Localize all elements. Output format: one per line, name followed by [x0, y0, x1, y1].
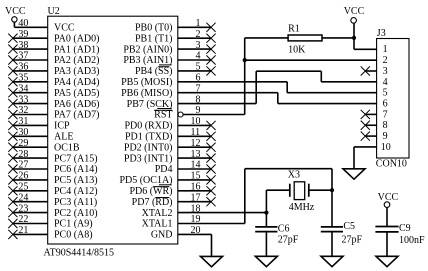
no-connect X at U2 pin 13 — [206, 154, 215, 163]
svg-text:27pF: 27pF — [342, 235, 363, 246]
svg-text:4: 4 — [383, 77, 388, 88]
wire stub J3 pin 7 — [365, 113, 376, 115]
svg-text:4MHz: 4MHz — [289, 202, 315, 213]
wire XTAL1 top horizontal to node D — [245, 168, 332, 170]
svg-text:6: 6 — [383, 98, 388, 109]
inversion bubble at U2 pin 9 (RST) — [178, 112, 183, 117]
wire stub U2 pin 11 — [178, 135, 211, 137]
svg-text:PA3 (AD3): PA3 (AD3) — [54, 66, 99, 77]
no-connect X at U2 pin 38 — [8, 45, 17, 54]
svg-text:XTAL1: XTAL1 — [142, 219, 173, 230]
wire U2 pin 18 (XTAL2) to node C — [178, 212, 267, 214]
svg-text:VCC: VCC — [5, 6, 26, 17]
wire stub U2 pin 12 — [178, 146, 211, 148]
no-connect X at U2 pin 10 — [206, 121, 215, 130]
svg-text:C5: C5 — [343, 221, 355, 232]
svg-text:9: 9 — [383, 131, 388, 142]
no-connect X at U2 pin 28 — [8, 154, 17, 163]
resistor R1 body — [288, 35, 322, 41]
svg-text:29: 29 — [18, 138, 28, 149]
svg-text:5: 5 — [383, 88, 388, 99]
no-connect X at U2 pin 33 — [8, 99, 17, 108]
wire stub J3 pin 3 — [365, 70, 376, 72]
svg-text:40: 40 — [18, 18, 28, 29]
wire stub U2 pin 38 — [13, 48, 48, 50]
wire XTAL1 riser vertical — [244, 169, 246, 224]
ground symbol below C6 — [255, 256, 277, 266]
svg-text:PC4 (A12): PC4 (A12) — [54, 186, 98, 197]
no-connect X at U2 pin 21 — [8, 230, 17, 239]
svg-text:PA2 (AD2): PA2 (AD2) — [54, 55, 99, 66]
svg-text:23: 23 — [18, 203, 28, 214]
svg-text:PD2 (INT0): PD2 (INT0) — [124, 142, 173, 153]
no-connect X at U2 pin 27 — [8, 164, 17, 173]
wire stub U2 pin 33 — [13, 103, 48, 105]
svg-text:U2: U2 — [48, 6, 60, 17]
svg-text:38: 38 — [18, 40, 28, 51]
svg-text:PD4: PD4 — [155, 164, 173, 175]
wire C5 to ground — [331, 232, 333, 257]
svg-text:VCC: VCC — [54, 23, 75, 34]
svg-text:32: 32 — [18, 105, 28, 116]
wire C9 to ground — [386, 232, 388, 256]
svg-text:PD7 (RD): PD7 (RD) — [132, 197, 173, 208]
svg-text:C6: C6 — [278, 224, 290, 235]
ground symbol below C5 — [321, 256, 343, 266]
svg-text:C9: C9 — [399, 223, 411, 234]
svg-text:33: 33 — [18, 94, 28, 105]
wire U2 pin 9 (RST) to node A riser — [183, 114, 245, 116]
svg-text:PC0 (A8): PC0 (A8) — [54, 230, 93, 241]
svg-text:31: 31 — [18, 116, 28, 127]
svg-text:XTAL2: XTAL2 — [142, 208, 173, 219]
svg-text:26: 26 — [18, 171, 28, 182]
wire stub U2 pin 17 — [178, 201, 211, 203]
svg-text:8: 8 — [383, 120, 388, 131]
wire stub U2 pin 4 — [178, 59, 211, 61]
svg-text:28: 28 — [18, 149, 28, 160]
no-connect X at U2 pin 30 — [8, 132, 17, 141]
wire stub U2 pin 15 — [178, 179, 211, 181]
junction dot node D at crystal right/C5 — [330, 188, 334, 192]
ground symbol below U2 GND — [201, 256, 223, 266]
no-connect X at J3 pin 9 — [361, 132, 370, 141]
no-connect X at U2 pin 29 — [8, 143, 17, 152]
no-connect X at U2 pin 24 — [8, 197, 17, 206]
svg-text:PD1 (TXD): PD1 (TXD) — [125, 132, 173, 143]
wire stub U2 pin 30 — [13, 135, 48, 137]
no-connect X at U2 pin 12 — [206, 143, 215, 152]
wire stub U2 pin 22 — [13, 223, 48, 225]
wire stub U2 pin 32 — [13, 114, 48, 116]
no-connect X at U2 pin 11 — [206, 132, 215, 141]
IC U2 body (AT90S4414/8515) — [48, 16, 178, 244]
wire VCC symbol to C9 — [386, 207, 388, 226]
svg-text:21: 21 — [18, 225, 28, 236]
svg-text:7: 7 — [383, 109, 388, 120]
wire stub U2 pin 26 — [13, 179, 48, 181]
capacitor C5 top plate — [321, 226, 343, 228]
wire stub U2 pin 28 — [13, 157, 48, 159]
no-connect X at U2 pin 32 — [8, 110, 17, 119]
wire node A riser vertical to R1 row — [244, 38, 246, 115]
wire U2 pin 19 (XTAL1) to riser — [178, 223, 245, 225]
wire U2 pin 7 (PB6 MISO) to J3 pin 6 — [178, 92, 278, 94]
no-connect X at U2 pin 5 — [206, 66, 215, 75]
svg-text:22: 22 — [18, 214, 28, 225]
svg-text:GND: GND — [151, 230, 173, 241]
svg-text:PC1 (A9): PC1 (A9) — [54, 219, 93, 230]
capacitor C6 bottom plate — [255, 231, 277, 233]
svg-text:PC5 (A13): PC5 (A13) — [54, 175, 98, 186]
svg-text:PA6 (AD6): PA6 (AD6) — [54, 99, 99, 110]
no-connect X at U2 pin 23 — [8, 208, 17, 217]
no-connect X at U2 pin 31 — [8, 121, 17, 130]
svg-text:AT90S4414/8515: AT90S4414/8515 — [44, 248, 115, 259]
wire stub U2 pin 16 — [178, 190, 211, 192]
wire stub U2 pin 29 — [13, 146, 48, 148]
svg-text:27: 27 — [18, 160, 28, 171]
capacitor C5 bottom plate — [321, 231, 343, 233]
no-connect X at J3 pin 8 — [361, 121, 370, 130]
svg-text:PB4 (SS): PB4 (SS) — [135, 66, 173, 77]
svg-text:1: 1 — [383, 44, 388, 55]
svg-text:PC2 (A10): PC2 (A10) — [54, 208, 98, 219]
svg-text:PD3 (INT1): PD3 (INT1) — [124, 153, 173, 164]
no-connect X at U2 pin 2 — [206, 34, 215, 43]
capacitor C9 bottom plate — [375, 231, 398, 233]
svg-text:PB0 (T0): PB0 (T0) — [135, 23, 173, 34]
svg-text:PC6 (A14): PC6 (A14) — [54, 164, 98, 175]
no-connect X at U2 pin 39 — [8, 34, 17, 43]
wire stub U2 pin 1 — [178, 26, 211, 28]
svg-text:ALE: ALE — [54, 132, 73, 143]
svg-text:PB1 (T1): PB1 (T1) — [135, 33, 173, 44]
junction dot node A on J3 pin 2 tap — [243, 58, 247, 62]
wire stub U2 pin 2 — [178, 37, 211, 39]
wire node C vertical crystal left terminal to C6 — [265, 190, 267, 227]
svg-text:R1: R1 — [288, 23, 300, 34]
svg-text:35: 35 — [18, 73, 28, 84]
wire stub U2 pin 34 — [13, 92, 48, 94]
svg-text:PA7 (AD7): PA7 (AD7) — [54, 110, 99, 121]
wire crystal X3 left terminal — [266, 189, 289, 191]
no-connect X at U2 pin 16 — [206, 186, 215, 195]
svg-text:36: 36 — [18, 62, 28, 73]
no-connect X at J3 pin 7 — [361, 110, 370, 119]
svg-text:PA1 (AD1): PA1 (AD1) — [54, 44, 99, 55]
svg-text:PA5 (AD5): PA5 (AD5) — [54, 88, 99, 99]
no-connect X at U2 pin 3 — [206, 45, 215, 54]
wire stub U2 pin 31 — [13, 124, 48, 126]
wire stub U2 pin 27 — [13, 168, 48, 170]
wire VCC symbol down through node B to J3 pin 1 — [353, 23, 355, 49]
wire C6 to ground — [265, 232, 267, 257]
crystal X3 body — [294, 182, 305, 200]
wire J3 pin 10 to ground — [354, 146, 377, 148]
wire stub U2 pin 39 — [13, 37, 48, 39]
no-connect X at U2 pin 34 — [8, 88, 17, 97]
svg-text:24: 24 — [18, 192, 28, 203]
wire node A to J3 pin 2 — [245, 59, 377, 61]
capacitor C9 top plate — [375, 226, 398, 228]
svg-text:34: 34 — [18, 83, 28, 94]
wire stub U2 pin 35 — [13, 81, 48, 83]
svg-text:30: 30 — [18, 127, 28, 138]
ground symbol below C9 — [376, 256, 398, 266]
wire stub J3 pin 9 — [365, 135, 376, 137]
wire stub U2 pin 5 — [178, 70, 211, 72]
wire node A to resistor R1 left terminal — [245, 37, 288, 39]
svg-text:PC7 (A15): PC7 (A15) — [54, 153, 98, 164]
svg-text:100nF: 100nF — [399, 235, 425, 246]
no-connect X at U2 pin 4 — [206, 55, 215, 64]
crystal X3 left plate — [289, 184, 291, 197]
svg-text:PB2 (AIN0): PB2 (AIN0) — [123, 44, 172, 55]
svg-text:2: 2 — [383, 55, 388, 66]
wire crystal X3 right terminal — [309, 189, 332, 191]
svg-text:39: 39 — [18, 29, 28, 40]
wire node D vertical down to C5 — [331, 169, 333, 227]
wire stub U2 pin 37 — [13, 59, 48, 61]
wire stub U2 pin 25 — [13, 190, 48, 192]
ground symbol below J3 — [343, 169, 365, 179]
capacitor C6 top plate — [255, 226, 277, 228]
no-connect X at U2 pin 35 — [8, 77, 17, 86]
wire stub U2 pin 13 — [178, 157, 211, 159]
svg-text:PA0 (AD0): PA0 (AD0) — [54, 33, 99, 44]
no-connect X at U2 pin 25 — [8, 186, 17, 195]
no-connect X at U2 pin 1 — [206, 23, 215, 32]
no-connect X at U2 pin 37 — [8, 55, 17, 64]
svg-text:PB5 (MOSI): PB5 (MOSI) — [121, 77, 172, 88]
svg-text:X3: X3 — [288, 169, 300, 180]
no-connect X at U2 pin 15 — [206, 175, 215, 184]
svg-text:ICP: ICP — [54, 121, 70, 132]
svg-text:J3: J3 — [377, 28, 386, 39]
svg-text:PD0 (RXD): PD0 (RXD) — [124, 121, 172, 132]
no-connect X at J3 pin 3 — [361, 66, 370, 75]
wire stub U2 pin 21 — [13, 233, 48, 235]
wire R1 right terminal to VCC node B — [322, 37, 354, 39]
wire stub J3 pin 8 — [365, 124, 376, 126]
svg-text:3: 3 — [383, 66, 388, 77]
wire stub U2 pin 23 — [13, 212, 48, 214]
crystal X3 right plate — [308, 184, 310, 197]
no-connect X at U2 pin 17 — [206, 197, 215, 206]
svg-text:10: 10 — [381, 142, 391, 153]
svg-text:CON10: CON10 — [376, 159, 407, 170]
junction dot node B at VCC tap — [352, 36, 356, 40]
svg-text:PB6 (MISO): PB6 (MISO) — [121, 88, 172, 99]
wire stub U2 pin 3 — [178, 48, 211, 50]
wire stub U2 pin 24 — [13, 201, 48, 203]
wire stub U2 pin 10 — [178, 124, 211, 126]
svg-text:PC3 (A11): PC3 (A11) — [54, 197, 97, 208]
svg-text:PD6 (WR): PD6 (WR) — [129, 186, 172, 197]
no-connect X at U2 pin 22 — [8, 219, 17, 228]
svg-text:RST: RST — [154, 110, 172, 121]
no-connect X at U2 pin 36 — [8, 66, 17, 75]
wire U2 pin 8 (PB7 SCK) to J3 pin 4 — [178, 103, 256, 105]
junction dot node C at XTAL2/C6 — [264, 211, 268, 215]
svg-text:VCC: VCC — [344, 6, 365, 17]
wire stub U2 pin 36 — [13, 70, 48, 72]
wire U2 pin 6 (PB5 MOSI) to J3 pin 5 — [178, 81, 287, 83]
svg-text:37: 37 — [18, 51, 28, 62]
wire VCC symbol to U2 pin 40 — [13, 22, 15, 27]
svg-text:OC1B: OC1B — [54, 142, 80, 153]
no-connect X at U2 pin 14 — [206, 164, 215, 173]
wire stub U2 pin 14 — [178, 168, 211, 170]
wire U2 pin 20 (GND) to ground — [178, 233, 212, 235]
svg-text:25: 25 — [18, 182, 28, 193]
svg-text:27pF: 27pF — [278, 235, 299, 246]
svg-text:10K: 10K — [288, 45, 306, 56]
svg-text:PA4 (AD4): PA4 (AD4) — [54, 77, 99, 88]
no-connect X at U2 pin 26 — [8, 175, 17, 184]
connector J3 body — [377, 39, 409, 159]
